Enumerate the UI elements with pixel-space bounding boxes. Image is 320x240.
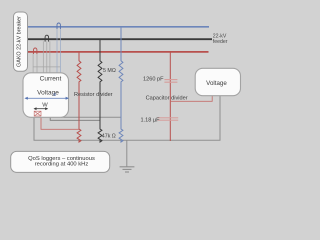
svg-text:B: B: [53, 92, 56, 97]
svg-text:GAKO 22-kV breaker: GAKO 22-kV breaker: [17, 16, 23, 67]
svg-text:1260 pF: 1260 pF: [143, 76, 164, 82]
svg-text:1.18 µF: 1.18 µF: [141, 117, 161, 123]
svg-text:feeder: feeder: [213, 39, 228, 45]
svg-text:Capacitor divider: Capacitor divider: [146, 95, 188, 101]
svg-text:recording at 400 kHz: recording at 400 kHz: [35, 162, 89, 168]
svg-text:Voltage: Voltage: [206, 80, 227, 87]
svg-text:47k Ω: 47k Ω: [102, 134, 116, 140]
svg-text:Resistor divider: Resistor divider: [74, 92, 113, 98]
svg-text:Current: Current: [40, 76, 62, 83]
svg-text:5 MΩ: 5 MΩ: [103, 68, 116, 74]
